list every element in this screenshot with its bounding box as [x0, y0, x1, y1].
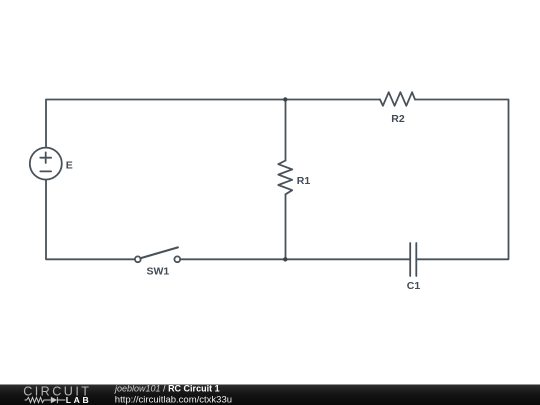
svg-text:LAB: LAB: [66, 395, 91, 405]
svg-text:R2: R2: [391, 113, 405, 125]
svg-text:http://circuitlab.com/ctxk33u: http://circuitlab.com/ctxk33u: [115, 395, 232, 405]
svg-text:R1: R1: [297, 175, 311, 187]
svg-text:SW1: SW1: [147, 265, 170, 277]
svg-text:E: E: [66, 160, 73, 172]
svg-text:joeblow101 / RC Circuit 1: joeblow101 / RC Circuit 1: [114, 383, 220, 393]
svg-text:C1: C1: [407, 280, 421, 292]
